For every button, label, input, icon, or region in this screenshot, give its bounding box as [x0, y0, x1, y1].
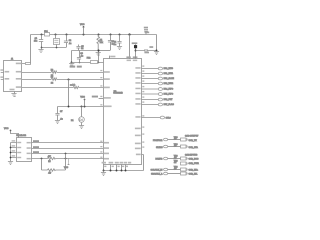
svg-text:CTL0: CTL0: [166, 118, 172, 120]
svg-text:VCC: VCC: [4, 128, 9, 130]
svg-text:CAB_TX: CAB_TX: [189, 139, 198, 142]
ferrite bead FB2: [87, 58, 98, 64]
svg-text:4k7: 4k7: [174, 157, 177, 159]
resistor R4: [72, 84, 79, 88]
svg-text:C7: C7: [60, 111, 62, 113]
wire pullup loop: [42, 154, 66, 171]
wire sense line: [22, 87, 103, 89]
wire AVCC feed: [72, 62, 104, 64]
svg-text:SDA/CLK_A: SDA/CLK_A: [151, 172, 163, 175]
svg-text:CAB_RX-: CAB_RX-: [189, 172, 198, 175]
capacitor C1 polarized: [34, 35, 43, 48]
wire 3v3 node: [72, 51, 99, 63]
ground GND9: [79, 126, 84, 129]
regulator U1 small box: [54, 34, 60, 47]
svg-text:4k7: 4k7: [174, 146, 177, 148]
node U2 right pin names: [135, 67, 140, 118]
wire SCL: [32, 142, 103, 144]
node row CAB_RX+: [151, 167, 199, 172]
crystal Y1 24MHz: [132, 42, 138, 58]
wire main VBUS rail: [31, 35, 157, 64]
wire VBUS from J1: [22, 63, 31, 65]
svg-text:CAB OUTPUT: CAB OUTPUT: [185, 135, 199, 138]
svg-text:.1u: .1u: [69, 43, 72, 45]
resistor R2: [51, 69, 57, 77]
power flag VCC mid: [80, 97, 85, 107]
wire port A row 1: [142, 65, 174, 70]
node VBUS junction dots on rail: [41, 33, 131, 35]
wire port A row 3: [142, 75, 175, 80]
node R1 bottom: [98, 50, 100, 52]
node row CAB_TX: [153, 137, 197, 142]
svg-text:8LED#: 8LED#: [156, 147, 163, 149]
ground GND10: [8, 162, 13, 165]
svg-text:PA6_PKT: PA6_PKT: [164, 98, 174, 101]
power flag VCC eeprom: [4, 128, 19, 138]
capacitor C5: [76, 45, 83, 51]
svg-text:CAB_DCC: CAB_DCC: [189, 158, 199, 161]
svg-text:.1u: .1u: [114, 44, 117, 46]
node U2 left pin names: [104, 71, 112, 159]
svg-text:PA7/FB: PA7/FB: [155, 158, 163, 161]
ferrite bead FB1: [44, 31, 49, 36]
svg-text:PA2_SLOE: PA2_SLOE: [164, 77, 175, 80]
capacitor C8 above rail: [144, 27, 149, 35]
svg-text:VCC: VCC: [80, 97, 85, 99]
node row CAB_DCC: [155, 156, 198, 161]
svg-text:R2: R2: [51, 69, 53, 71]
connector J1 USB: [4, 59, 22, 92]
wire A0 A1 A2 ties: [11, 140, 17, 161]
svg-text:CAB_STA: CAB_STA: [189, 146, 199, 149]
svg-text:VCC: VCC: [80, 24, 85, 26]
svg-text:FB2: FB2: [87, 58, 90, 60]
wire VCC drop to IC top: [129, 34, 131, 58]
capacitor C4: [114, 35, 122, 47]
svg-text:SCL/CLK_IN: SCL/CLK_IN: [151, 170, 163, 172]
wire port A row 2: [142, 70, 174, 75]
resistor R3: [51, 77, 57, 85]
ground GND8: [55, 121, 60, 124]
svg-text:4k7: 4k7: [174, 139, 177, 141]
wire XTAL return: [142, 155, 144, 171]
wire port A row 5: [142, 86, 174, 91]
wire port A row 7: [142, 96, 174, 101]
wire WP: [32, 153, 103, 155]
svg-text:J1: J1: [11, 59, 13, 61]
ground GND2: [96, 51, 101, 56]
svg-text:1u: 1u: [81, 48, 83, 50]
svg-text:.1u: .1u: [80, 56, 83, 58]
capacitor C6: [77, 51, 83, 63]
node header CAB INPUTS: [185, 153, 198, 156]
node U2 bottom pin names: [102, 162, 132, 164]
svg-text:U3 24LC64: U3 24LC64: [16, 135, 26, 137]
node D+ D- labels at top edge: [126, 56, 137, 58]
wire CTL0 row: [142, 115, 172, 119]
capacitor C9 xtal load: [136, 46, 157, 53]
capacitor C2: [64, 35, 71, 48]
svg-text:R3: R3: [51, 77, 53, 79]
ferrite bead FB3: [26, 63, 31, 65]
node wakeup junctions: [68, 106, 86, 108]
svg-text:PA4_FIFO: PA4_FIFO: [164, 88, 174, 91]
power flag VCC reset: [64, 159, 70, 169]
node bottom pin numbers: [104, 166, 128, 168]
svg-text:4k7: 4k7: [174, 168, 177, 170]
node row CAB_STAT: [156, 144, 198, 149]
svg-text:PA1_INT1: PA1_INT1: [164, 72, 174, 75]
node row CAB_RX-: [151, 172, 198, 175]
resistor R5: [48, 156, 56, 163]
svg-text:FB1: FB1: [44, 31, 47, 33]
node 3v3 dots: [71, 50, 100, 64]
wire D-: [22, 79, 103, 81]
ground GND4 under C4: [117, 47, 122, 50]
svg-text:PD3/FD11: PD3/FD11: [153, 140, 163, 142]
capacitor C3: [108, 35, 114, 51]
svg-text:10k: 10k: [100, 42, 103, 44]
ground GND3: [69, 63, 74, 67]
ground GND11: [154, 52, 159, 55]
svg-text:4k7: 4k7: [48, 173, 51, 175]
svg-text:4k7: 4k7: [48, 156, 51, 158]
LED D1: [71, 106, 84, 125]
node U2 left pin numbers: [100, 70, 102, 158]
node A0A1A2 dots: [10, 147, 12, 159]
svg-text:PA7_FLAG: PA7_FLAG: [164, 103, 175, 106]
node RESET stub: [92, 96, 103, 99]
svg-text:CY7C68013: CY7C68013: [113, 93, 122, 95]
node header CAB OUTPUT: [185, 135, 199, 138]
ground GND12: [101, 171, 106, 176]
wire wakeup net: [58, 106, 104, 108]
node reset junctions: [41, 153, 67, 160]
wire port A row 8: [142, 101, 175, 106]
svg-text:10u: 10u: [34, 40, 37, 42]
connector J1 pin names inside: [5, 63, 22, 91]
node D- junction: [68, 79, 70, 81]
eeprom U3: [16, 135, 31, 161]
ground GND J1: [11, 92, 16, 97]
svg-text:PA5_FIFO: PA5_FIFO: [164, 93, 174, 96]
wire R1 to C3 bottom: [98, 50, 110, 52]
node xtal gnd junction: [156, 50, 158, 52]
svg-text:CAB_RX+: CAB_RX+: [189, 169, 199, 172]
node i2c net labels: [33, 140, 39, 153]
power flag VCC top: [80, 24, 85, 34]
wire port A row 6: [142, 91, 174, 96]
wire U2 bottom gnd pins: [104, 165, 144, 171]
power pin VCC stub top: [110, 56, 116, 59]
node right lower pin numbers outside: [142, 126, 144, 147]
wire port A row 4: [142, 80, 174, 85]
svg-text:CAB INPUTS: CAB INPUTS: [185, 153, 198, 156]
wire reset line: [32, 158, 104, 160]
capacitor C7 branch: [55, 107, 62, 121]
svg-text:VCC: VCC: [64, 167, 69, 169]
wire J1 shield stubs left: [0, 69, 3, 79]
node right lower pin names inside: [135, 128, 141, 156]
svg-text:4k7: 4k7: [174, 162, 177, 164]
wire D- pullup branch: [69, 79, 76, 106]
node sub-rail junctions: [41, 47, 58, 49]
wire D+: [22, 72, 103, 74]
node net label D+: [70, 66, 82, 68]
svg-text:R5: R5: [48, 161, 50, 163]
wire SDA: [32, 148, 103, 150]
svg-text:D1: D1: [71, 120, 73, 122]
svg-text:22: 22: [51, 82, 53, 84]
svg-text:PA0_INT0: PA0_INT0: [164, 67, 174, 70]
node bottom bus dots: [103, 170, 127, 172]
svg-text:R1: R1: [100, 39, 102, 41]
resistor R1: [97, 34, 103, 50]
ground GND1: [38, 48, 43, 53]
eeprom U3 pin names inside: [17, 142, 31, 160]
op-amp U2 main IC CY7C68013: [104, 59, 142, 165]
resistor R7: [48, 169, 56, 175]
wire sub-rail gnd bus: [41, 47, 66, 49]
svg-text:.1u: .1u: [60, 118, 63, 120]
node XTALIN XTALOUT pin names inside: [127, 60, 138, 62]
svg-text:PA3_WU2: PA3_WU2: [164, 82, 174, 85]
node row CAB_PWR: [174, 160, 199, 165]
svg-text:CAB_PWR: CAB_PWR: [189, 162, 200, 165]
